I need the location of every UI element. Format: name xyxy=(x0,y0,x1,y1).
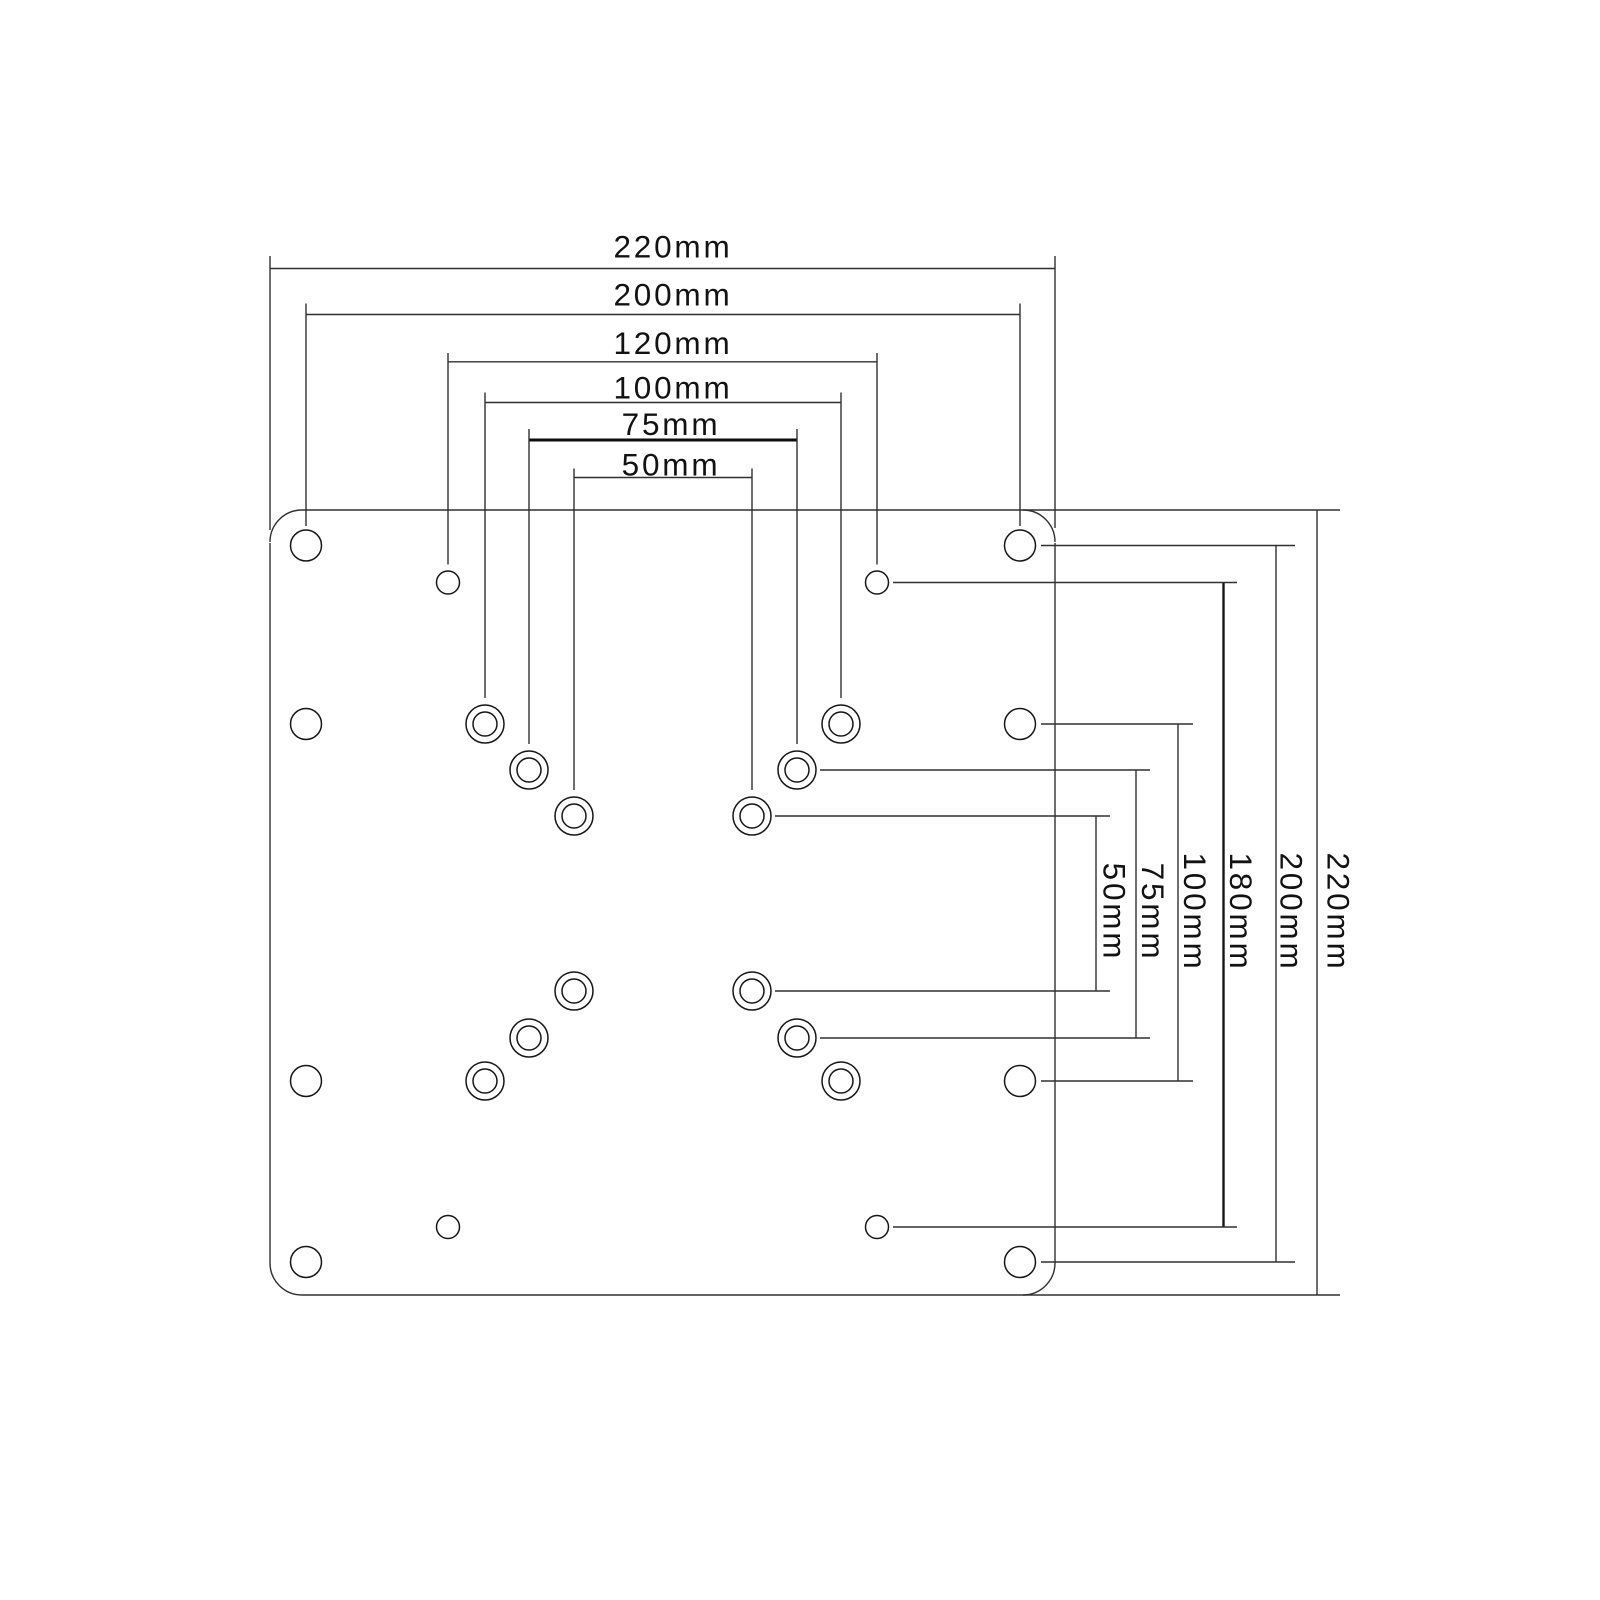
svg-text:180mm: 180mm xyxy=(1223,852,1259,971)
hole mid-edge right lower xyxy=(1005,1066,1036,1097)
svg-text:50mm: 50mm xyxy=(1096,863,1132,962)
hole vesa100 top-right xyxy=(822,705,860,743)
plate right edge xyxy=(1054,543,1056,1263)
hole small top-right xyxy=(866,571,889,594)
plate right edge with 220mm width right extension xyxy=(1054,256,1056,528)
hole corner top-right xyxy=(1005,530,1036,561)
dimension line 120mm width xyxy=(448,361,877,363)
plate top edge with 220mm height top extension xyxy=(302,509,1340,511)
hole vesa75 bottom-right xyxy=(778,1019,816,1057)
svg-text:200mm: 200mm xyxy=(613,276,732,312)
hole vesa75 bottom-left xyxy=(510,1019,548,1057)
hole vesa50 bottom-left xyxy=(555,972,593,1010)
leader 75mm height bottom xyxy=(820,1037,1150,1039)
extension 75mm width left xyxy=(528,429,530,744)
leader 75mm height top xyxy=(820,769,1150,771)
svg-text:220mm: 220mm xyxy=(613,229,732,265)
hole vesa50 top-right xyxy=(733,797,771,835)
hole mid-edge left lower xyxy=(291,1066,322,1097)
leader 100mm height top xyxy=(1041,723,1193,725)
svg-text:200mm: 200mm xyxy=(1274,852,1310,971)
leader 200mm height top xyxy=(1041,545,1295,547)
hole vesa50 bottom-right xyxy=(733,972,771,1010)
hole corner bottom-left xyxy=(291,1247,322,1278)
hole vesa100 bottom-left xyxy=(466,1062,504,1100)
dimension line 200mm height xyxy=(1275,546,1277,1263)
extension 100mm width right xyxy=(840,393,842,699)
hole small bottom-left xyxy=(437,1216,460,1239)
leader 200mm height bottom xyxy=(1041,1261,1295,1263)
plate left edge with 220mm width left extension xyxy=(269,256,271,530)
plate bottom edge with 220mm height bottom extension xyxy=(302,1294,1340,1296)
plate corner bottom-left xyxy=(270,1263,302,1295)
svg-text:50mm: 50mm xyxy=(622,447,721,483)
dimension line 200mm width xyxy=(306,314,1020,316)
hole mid-edge left upper xyxy=(291,709,322,740)
hole corner bottom-right xyxy=(1005,1247,1036,1278)
leader 180mm height bottom xyxy=(893,1226,1237,1228)
hole mid-edge right upper xyxy=(1005,709,1036,740)
plate corner top-left xyxy=(270,510,302,542)
hole vesa75 top-left xyxy=(510,751,548,789)
dimension line 50mm height xyxy=(1095,816,1097,991)
plate corner bottom-right xyxy=(1023,1263,1055,1295)
extension 100mm width left xyxy=(484,393,486,699)
leader 100mm height bottom xyxy=(1041,1080,1193,1082)
dimension line 75mm width xyxy=(529,439,797,442)
hole vesa50 top-left xyxy=(555,797,593,835)
hole vesa100 top-left xyxy=(466,705,504,743)
dimension line 75mm height xyxy=(1135,770,1137,1038)
extension 120mm width left xyxy=(447,353,449,565)
leader 50mm height bottom xyxy=(775,990,1110,992)
svg-text:120mm: 120mm xyxy=(613,325,732,361)
hole corner top-left xyxy=(291,530,322,561)
plate corner top-right xyxy=(1023,510,1055,542)
dimension line 180mm height xyxy=(1222,583,1224,1228)
hole small bottom-right xyxy=(866,1216,889,1239)
hole vesa100 bottom-right xyxy=(822,1062,860,1100)
extension 50mm width left xyxy=(573,469,575,791)
leader 50mm height top xyxy=(775,815,1110,817)
svg-text:220mm: 220mm xyxy=(1321,852,1357,971)
dimension line 220mm width xyxy=(270,268,1055,270)
hole small top-left xyxy=(437,571,460,594)
extension 50mm width right xyxy=(751,469,753,791)
dimension line 220mm height xyxy=(1316,510,1318,1295)
extension 120mm width right xyxy=(876,353,878,565)
svg-text:75mm: 75mm xyxy=(1135,863,1171,962)
extension 200mm width right xyxy=(1019,304,1021,527)
svg-text:75mm: 75mm xyxy=(622,406,721,442)
dimension line 100mm height xyxy=(1177,724,1179,1081)
hole vesa75 top-right xyxy=(778,751,816,789)
extension 75mm width right xyxy=(796,429,798,744)
plate left edge xyxy=(269,543,271,1263)
dimension line 100mm width xyxy=(485,402,841,404)
dimension line 50mm width xyxy=(574,477,752,479)
extension 200mm width left xyxy=(305,304,307,527)
svg-text:100mm: 100mm xyxy=(613,369,732,405)
leader 180mm height top xyxy=(893,582,1237,584)
svg-text:100mm: 100mm xyxy=(1177,852,1213,971)
